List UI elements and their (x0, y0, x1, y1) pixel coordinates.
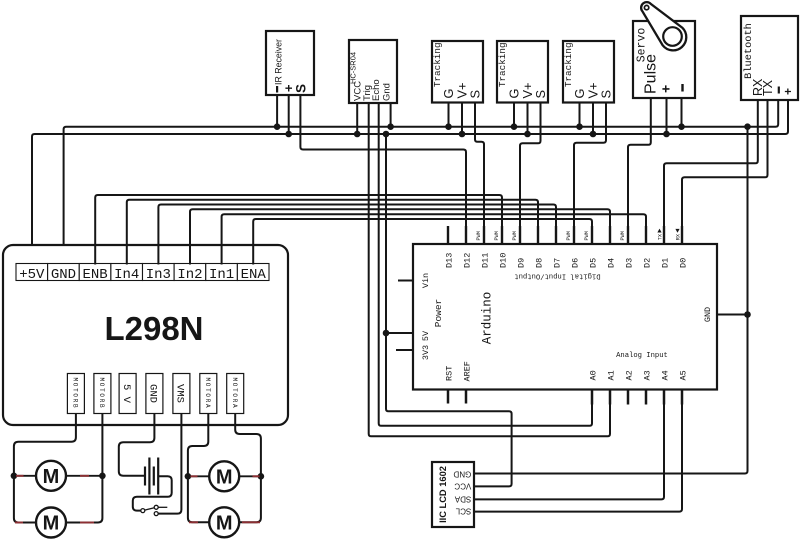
svg-text:GND: GND (147, 384, 159, 403)
wire HC-SR04 Echo to Arduino A0 (379, 103, 592, 426)
svg-text:D1: D1 (661, 258, 671, 268)
HC-SR04 pin Echo label (371, 79, 382, 101)
Arduino pin D10 stub and label (494, 226, 509, 268)
svg-text:A2: A2 (625, 370, 635, 380)
Arduino pin D5 stub and label (584, 226, 599, 268)
wire motor B1 right lead with red segment (66, 475, 102, 477)
svg-text:A4: A4 (661, 370, 671, 380)
wire tracking 1 G to GND bus (448, 103, 450, 127)
svg-text:MOTORB: MOTORB (72, 378, 79, 410)
Arduino title (481, 292, 495, 345)
junction HC-SR04 VCC on +5V bus (354, 131, 361, 138)
svg-text:D10: D10 (499, 253, 509, 268)
junction +5V feed on +5V bus (383, 131, 390, 138)
wire MOTORB pin2 right motor rail (66, 414, 102, 523)
svg-text:TX: TX (761, 79, 775, 96)
svg-text:Arduino: Arduino (481, 292, 495, 345)
svg-text:Tracking: Tracking (432, 42, 443, 87)
Arduino board body (413, 244, 717, 390)
junction tracking 2 G on GND bus (511, 123, 518, 130)
wire L298N ENB to D10 (95, 195, 502, 265)
svg-text:+: + (781, 88, 795, 95)
Arduino pin A4 stub and label (661, 370, 671, 404)
svg-text:+5V: +5V (19, 267, 45, 283)
wire tracking 1 S to Arduino D11 (475, 103, 484, 245)
svg-text:D8: D8 (535, 258, 545, 268)
L298N bottom connector MOTORA #6 (200, 374, 217, 414)
Digital Input/Output label (514, 272, 600, 280)
svg-text:RST: RST (445, 366, 455, 381)
IR pin 'S' label (294, 84, 309, 93)
Arduino AREF pin stub and label (463, 361, 473, 403)
wire L298N GND connector to battery negative (119, 414, 155, 476)
wire tracking 2 S to Arduino D9 (520, 103, 541, 245)
wire L298N In3 to D7 (158, 205, 556, 265)
Arduino pin A0 stub and label (589, 370, 599, 404)
svg-text:Analog Input: Analog Input (616, 352, 668, 360)
svg-text:PWM: PWM (476, 231, 482, 240)
svg-text:D9: D9 (517, 258, 527, 268)
junction HC-SR04 Gnd on GND bus (387, 123, 394, 130)
Arduino pin D9 stub and label (512, 226, 527, 268)
svg-text:TX: TX (657, 233, 663, 240)
wire L298N In4 to D8 (127, 200, 538, 265)
svg-text:PWM: PWM (584, 231, 590, 240)
wire L298N In1 to D2 (222, 214, 646, 264)
battery BT1 (145, 458, 158, 495)
tracking 1 pin S label (468, 90, 483, 99)
wire LCD VCC to +5V bus via Arduino 5V junction (386, 134, 512, 486)
wire motor A1 right lead with red segment (239, 475, 261, 477)
svg-text:D2: D2 (643, 258, 653, 268)
Analog Input label (616, 352, 668, 360)
wire IR '-' to GND bus (276, 95, 278, 127)
tracking sensor 1 body (432, 41, 483, 103)
junction left rail motor A1 (185, 473, 192, 480)
svg-text:Tracking: Tracking (497, 42, 508, 87)
svg-text:D7: D7 (553, 258, 563, 268)
svg-text:VMS: VMS (174, 384, 186, 403)
svg-text:MOTORA: MOTORA (204, 378, 211, 410)
junction Arduino 5V stub with +5V feed (383, 330, 390, 337)
svg-text:Vin: Vin (421, 273, 431, 288)
junction IR '-' on GND bus (274, 123, 281, 130)
svg-text:A3: A3 (643, 370, 653, 380)
wire battery positive to switch (133, 476, 172, 510)
svg-text:Echo: Echo (371, 79, 382, 101)
Arduino pin D1 stub and label (657, 226, 670, 268)
LCD pin SCL label (455, 507, 471, 516)
L298N bottom connector MOTORB #1 (67, 374, 84, 414)
Arduino RST pin stub and label (445, 366, 455, 404)
wire LCD SDA to Arduino A4 (474, 390, 664, 500)
svg-text:+: + (658, 85, 674, 93)
L298N top pin header (+5V GND ENB In4 In3 In2 In1 ENA) (16, 264, 269, 283)
svg-text:5V: 5V (421, 330, 431, 341)
junction servo '+' on +5V bus (663, 131, 670, 138)
junction tracking 3 G on GND bus (576, 123, 583, 130)
svg-text:SCL: SCL (455, 507, 471, 516)
Arduino pin A1 stub and label (607, 370, 617, 404)
svg-text:5 V: 5 V (120, 384, 132, 404)
svg-text:D4: D4 (607, 258, 617, 268)
IR pin '+' label (281, 84, 296, 92)
Arduino 5V pin stub and label (386, 330, 431, 341)
wire MOTORA pin1 to left rail of right motors (188, 414, 209, 523)
junction tracking 2 V+ on +5V bus (524, 131, 531, 138)
tracking sensor 3 label (563, 42, 574, 87)
switch S1 (141, 505, 168, 515)
HC-SR04 label (349, 52, 358, 84)
svg-text:HC-SR04: HC-SR04 (349, 52, 358, 84)
wire servo '-' to GND bus (681, 98, 683, 127)
IR pin '-' label (276, 86, 278, 93)
svg-text:A0: A0 (589, 370, 599, 380)
bluetooth pin '-' label (778, 87, 780, 94)
junction IR '+' on +5V bus (285, 131, 292, 138)
wire switch to L298N VMS connector (158, 414, 181, 514)
svg-text:A1: A1 (607, 370, 617, 380)
Arduino pin D6 stub and label (566, 226, 581, 268)
bluetooth pin '+' label (781, 88, 795, 95)
L298N title (104, 310, 203, 347)
svg-text:In1: In1 (209, 267, 234, 283)
motor M4 (right pair) (209, 507, 239, 537)
wire motor A1 left lead with red segment (188, 475, 209, 477)
tracking 2 pin S label (533, 90, 548, 99)
svg-text:MOTORB: MOTORB (98, 378, 105, 410)
wire motor B1 left lead with red segment (14, 475, 36, 477)
svg-text:Bluetooth: Bluetooth (743, 23, 755, 79)
IIC LCD 1602 module body (432, 462, 474, 527)
svg-text:In3: In3 (146, 267, 171, 283)
servo pin '-' label (681, 84, 683, 92)
Power label (433, 299, 444, 328)
wire IR 'S' to Arduino D12 (300, 95, 466, 244)
svg-text:IIC LCD 1602: IIC LCD 1602 (438, 466, 448, 523)
junction tracking 1 V+ on +5V bus (459, 131, 466, 138)
svg-text:RX: RX (675, 233, 681, 240)
Servo label (636, 28, 649, 63)
tracking sensor 2 body (497, 41, 548, 103)
bluetooth pin RX label (751, 78, 765, 96)
junction right rail motor A1 (258, 473, 265, 480)
svg-text:In4: In4 (114, 267, 139, 283)
Arduino pin A2 stub and label (625, 370, 635, 404)
wire HC-SR04 Gnd to GND bus (390, 103, 392, 127)
svg-text:M: M (216, 512, 233, 534)
wire motor A2 red segments (189, 521, 260, 523)
junction servo '-' on GND bus (678, 123, 685, 130)
wire servo '+' to +5V bus (666, 98, 668, 134)
svg-text:S: S (599, 90, 614, 99)
svg-text:PWM: PWM (494, 231, 500, 240)
servo pin '+' label (658, 85, 674, 93)
wire bluetooth TX to Arduino D0 (682, 100, 768, 244)
tracking sensor 2 label (497, 42, 508, 87)
wire tracking 2 G to GND bus (513, 103, 515, 127)
wire LCD GND to GND net drop (474, 127, 748, 474)
svg-text:D12: D12 (463, 253, 473, 268)
wire +5V bus from L298N +5V pin to Bluetooth '+' pin (32, 100, 788, 265)
Arduino pin D7 stub and label (553, 226, 563, 268)
Arduino pin D11 stub and label (476, 226, 491, 268)
L298N bottom connector 5 V #3 (119, 374, 136, 414)
bluetooth pin TX label (761, 79, 775, 96)
L298N driver board body (3, 245, 288, 425)
tracking 3 pin S label (599, 90, 614, 99)
IR Receiver label (274, 39, 284, 85)
wire MOTORB pin1 to left motor rail (14, 414, 76, 523)
wire tracking 1 V+ to +5V bus (461, 103, 463, 135)
HC-SR04 pin Trig label (362, 85, 373, 101)
Arduino pin D8 stub and label (535, 226, 545, 268)
wire L298N ENA to D5 (253, 219, 592, 265)
svg-text:D5: D5 (589, 258, 599, 268)
tracking 1 pin G label (441, 89, 456, 99)
svg-text:PWM: PWM (566, 231, 572, 240)
svg-text:AREF: AREF (463, 361, 473, 381)
IR receiver module body (266, 31, 314, 95)
tracking 2 pin V+ label (520, 82, 535, 98)
Arduino pin A3 stub and label (643, 370, 653, 404)
svg-text:IR Receiver: IR Receiver (274, 39, 284, 85)
svg-text:MOTORA: MOTORA (231, 378, 238, 410)
svg-text:Tracking: Tracking (563, 42, 574, 87)
wire HC-SR04 Trig to Arduino A1 (369, 103, 610, 436)
Arduino 3V3 pin stub and label (396, 345, 431, 360)
Arduino pin D3 stub and label (620, 226, 635, 268)
svg-text:D0: D0 (679, 258, 689, 268)
svg-text:PWM: PWM (512, 231, 518, 240)
svg-text:D6: D6 (571, 258, 581, 268)
svg-text:M: M (216, 466, 233, 488)
wire tracking 2 V+ to +5V bus (527, 103, 529, 135)
junction right rail motor B1 (99, 473, 106, 480)
wire motor B2 red segments (15, 522, 94, 524)
motor M3 (right pair) (209, 461, 239, 491)
L298N bottom connector MOTORB #2 (94, 374, 111, 414)
motor M1 (left pair) (36, 461, 66, 491)
junction GND drop on GND bus (744, 123, 751, 130)
wire L298N In2 to D4 (190, 209, 610, 264)
svg-text:S: S (468, 90, 483, 99)
junction Arduino GND stub with GND drop wire (744, 311, 751, 318)
wire servo Pulse to Arduino D3 (628, 98, 651, 244)
svg-text:3V3: 3V3 (421, 345, 431, 360)
servo horn (641, 2, 686, 50)
Arduino pin A5 stub and label (679, 370, 689, 404)
svg-text:S: S (294, 84, 309, 93)
svg-text:Digital Input/Output: Digital Input/Output (514, 272, 600, 280)
svg-text:GND: GND (51, 267, 76, 283)
wire tracking 3 S to Arduino D6 (574, 103, 606, 245)
svg-text:GND: GND (453, 470, 471, 479)
Arduino pin D0 stub and label (675, 226, 688, 268)
tracking sensor 1 label (432, 42, 443, 87)
svg-text:D3: D3 (625, 258, 635, 268)
tracking 3 pin G label (572, 89, 587, 99)
svg-text:In2: In2 (177, 267, 202, 283)
svg-text:D11: D11 (481, 253, 491, 268)
bluetooth module body (741, 16, 798, 100)
servo body (633, 21, 695, 98)
tracking 3 pin V+ label (586, 82, 601, 98)
svg-text:SDA: SDA (454, 494, 471, 503)
L298N bottom connector VMS #5 (173, 374, 190, 414)
tracking sensor 3 body (563, 41, 614, 103)
wire GND bus from L298N GND pin to Bluetooth '-' pin (64, 100, 779, 265)
svg-text:A5: A5 (679, 370, 689, 380)
svg-text:ENA: ENA (241, 267, 267, 283)
svg-text:M: M (43, 466, 60, 488)
wire bluetooth RX to Arduino D1 (664, 100, 758, 244)
wire IR '+' to +5V bus (288, 95, 290, 134)
LCD pin SDA label (454, 494, 471, 503)
wire HC-SR04 VCC to +5V bus (356, 103, 358, 134)
Arduino Vin pin stub and label (398, 273, 431, 288)
svg-text:VCC: VCC (454, 481, 471, 490)
junction tracking 3 V+ on +5V bus (590, 131, 597, 138)
svg-text:L298N: L298N (104, 310, 203, 347)
junction left rail motor B1 (11, 473, 18, 480)
svg-text:Gnd: Gnd (382, 83, 393, 101)
Arduino pin D4 stub and label (607, 226, 617, 268)
Arduino GND pin stub and label (703, 307, 748, 322)
wire LCD SCL to Arduino A5 (474, 390, 682, 512)
wire MOTORA pin2 to right rail of right motors (235, 414, 261, 523)
motor M2 (left pair) (36, 508, 66, 538)
LCD pin GND label (453, 470, 471, 479)
HC-SR04 ultrasonic module body (349, 40, 397, 103)
L298N bottom connector GND #4 (146, 374, 163, 414)
svg-text:D13: D13 (445, 253, 455, 268)
wire tracking 3 V+ to +5V bus (592, 103, 594, 135)
Arduino pin D13 stub and label (445, 226, 455, 268)
Arduino pin D12 stub and label (463, 226, 473, 268)
svg-text:Power: Power (433, 299, 444, 328)
svg-text:S: S (533, 90, 548, 99)
tracking 1 pin V+ label (455, 82, 470, 98)
HC-SR04 pin VCC label (353, 81, 364, 101)
svg-text:GND: GND (703, 307, 713, 322)
svg-text:PWM: PWM (620, 231, 626, 240)
Arduino pin D2 stub and label (643, 226, 653, 268)
svg-text:M: M (43, 513, 60, 535)
servo pin Pulse label (643, 54, 660, 94)
HC-SR04 pin Gnd label (382, 83, 393, 101)
LCD pin VCC label (454, 481, 471, 490)
L298N bottom connector MOTORA #7 (227, 374, 244, 414)
svg-text:ENB: ENB (82, 267, 107, 283)
Bluetooth label (743, 23, 755, 79)
wire tracking 3 G to GND bus (579, 103, 581, 127)
IIC LCD 1602 label (438, 466, 448, 523)
tracking 2 pin G label (507, 89, 522, 99)
junction tracking 1 G on GND bus (445, 123, 452, 130)
